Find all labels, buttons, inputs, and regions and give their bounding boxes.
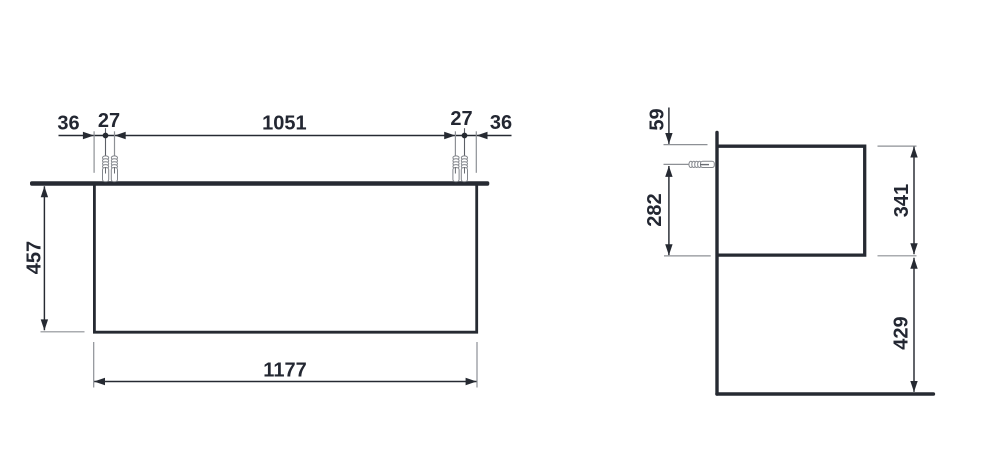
arrow left-pointing at right cabinet edge: [477, 132, 488, 139]
screw axis line left outer (with dot): [105, 128, 107, 172]
extension line cabinet top (side): [664, 144, 708, 146]
extension line cabinet bottom right: [878, 255, 917, 257]
svg-text:59: 59: [647, 108, 669, 130]
svg-text:282: 282: [644, 193, 666, 226]
anchor screw tips: [106, 167, 465, 174]
arrow right-pointing at left cabinet edge: [83, 132, 94, 139]
bottom dimension line 1177: [94, 381, 477, 383]
arrow up at plate bottom: [41, 186, 48, 197]
svg-text:36: 36: [490, 112, 512, 134]
wall anchor 1: [103, 156, 109, 182]
arrow down at cabinet top: [665, 133, 672, 144]
dimension line 429: [913, 258, 915, 392]
svg-text:1051: 1051: [262, 112, 307, 134]
arrow left-pointing at left inner screw: [115, 132, 126, 139]
dimension line 341: [913, 147, 915, 255]
anchor screw shank: [700, 164, 709, 166]
dot marker left outer screw: [103, 133, 109, 139]
extension line cabinet left edge: [93, 131, 95, 173]
dimension line 59: [668, 108, 670, 144]
side cabinet outline: [717, 146, 865, 255]
svg-text:36: 36: [57, 113, 79, 135]
arrow down at cabinet bottom: [41, 319, 48, 330]
arrow left at bottom dim: [94, 378, 105, 385]
floor line: [717, 392, 933, 396]
svg-text:27: 27: [98, 110, 120, 132]
dimension line 282: [668, 166, 670, 255]
extension line bottom right: [476, 342, 478, 388]
arrow down 341: [910, 243, 917, 254]
extension line cabinet bottom left: [41, 331, 85, 333]
extension line cabinet bottom (side, left): [664, 255, 711, 257]
horizontal wall anchor: [689, 161, 714, 167]
vertical dimension line 457: [43, 186, 45, 330]
top dimension line: [59, 135, 512, 137]
arrow up at screw axis: [665, 166, 672, 177]
cabinet body outline: [94, 186, 476, 333]
screw axis line left inner: [114, 131, 116, 172]
arrow up 341: [910, 147, 917, 158]
extension line bottom left: [93, 342, 95, 388]
svg-text:27: 27: [450, 108, 472, 130]
extension line cabinet right edge: [475, 131, 477, 173]
arrow right-pointing at right inner screw: [444, 132, 455, 139]
svg-text:457: 457: [24, 241, 46, 274]
dot marker right outer screw: [462, 133, 468, 139]
screw axis line right outer (with dot): [464, 128, 466, 172]
svg-text:341: 341: [891, 184, 913, 217]
screw axis line right inner: [454, 131, 456, 172]
svg-text:1177: 1177: [263, 359, 306, 381]
countertop plate: [30, 181, 489, 186]
arrow down 429: [910, 381, 917, 392]
wall anchor 4: [461, 156, 467, 182]
arrow right at bottom dim: [466, 378, 477, 385]
wall anchor 3: [453, 156, 459, 182]
anchor axis line: [664, 163, 690, 165]
svg-text:429: 429: [891, 316, 913, 349]
arrow down at cabinet bottom (side): [665, 244, 672, 255]
wall line: [715, 133, 718, 395]
wall anchor 2: [111, 156, 117, 182]
extension line cabinet top right: [878, 145, 917, 147]
arrow up 429: [910, 258, 917, 269]
